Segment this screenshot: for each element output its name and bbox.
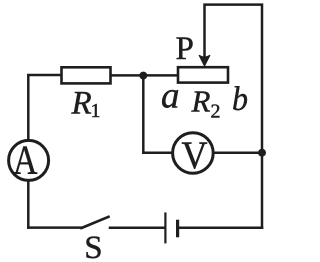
junction node dot on right rail: [258, 149, 266, 157]
svg-text:V: V: [182, 134, 208, 177]
wire: voltmeter right to right rail: [213, 151, 262, 154]
wire: battery to bottom right: [180, 227, 262, 230]
wire: voltmeter branch from node down and right: [143, 75, 172, 152]
voltmeter V circle: [173, 133, 214, 174]
svg-text:2: 2: [211, 100, 221, 122]
svg-text:b: b: [232, 81, 248, 118]
wire: right rail and top wire to wiper: [205, 5, 263, 228]
resistor R1 box: [62, 67, 111, 83]
junction node dot between R1 and R2: [139, 72, 147, 80]
battery long plate: [164, 214, 166, 243]
wire: switch to battery: [110, 227, 164, 230]
wire: top horizontal between R1 and R2: [111, 74, 179, 77]
svg-text:R: R: [191, 84, 211, 119]
svg-text:P: P: [176, 31, 194, 67]
svg-text:A: A: [13, 137, 38, 183]
wiper arrowhead onto R2: [199, 55, 210, 66]
ammeter A circle: [9, 140, 49, 180]
svg-text:R: R: [71, 86, 92, 122]
potentiometer R2 box: [178, 67, 228, 82]
wire: left vertical (battery loop, through ammeter): [28, 75, 61, 228]
wire: bottom left to switch: [28, 226, 81, 229]
svg-text:S: S: [84, 230, 102, 262]
switch S blade: [82, 217, 109, 228]
svg-text:1: 1: [91, 100, 101, 122]
svg-text:a: a: [161, 76, 180, 117]
battery short thick plate: [176, 221, 179, 235]
